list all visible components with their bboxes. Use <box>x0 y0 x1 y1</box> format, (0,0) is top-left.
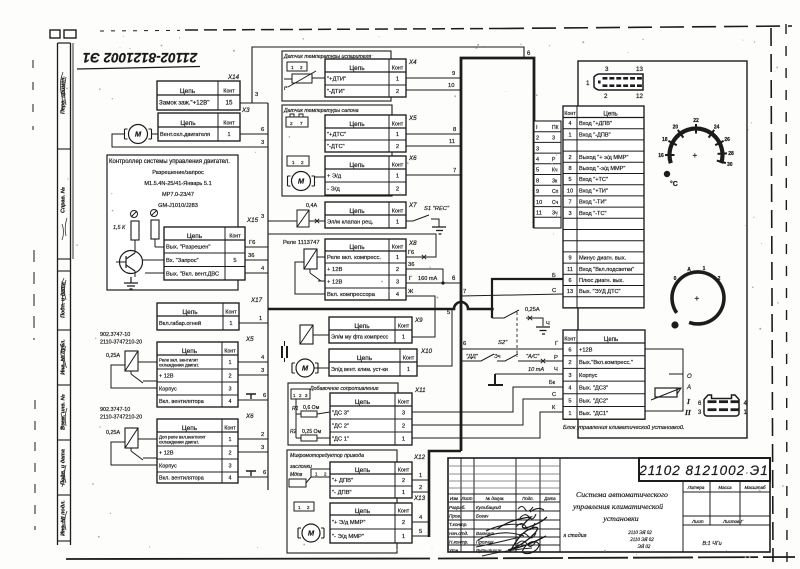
svg-text:Г: Г <box>555 341 559 347</box>
thermistor ДТИ <box>284 71 316 92</box>
svg-text:2: 2 <box>396 144 399 150</box>
svg-text:Вых. "ЭУД ДТС": Вых. "ЭУД ДТС" <box>579 289 621 295</box>
svg-text:2: 2 <box>402 424 405 430</box>
svg-text:Зк: Зк <box>552 178 558 184</box>
svg-text:2110 ЭЯ 02: 2110 ЭЯ 02 <box>628 531 652 536</box>
wire X14 pin15 <box>240 102 268 104</box>
svg-text:8: 8 <box>453 127 456 133</box>
svg-text:6: 6 <box>452 276 456 282</box>
svg-text:2: 2 <box>290 121 293 126</box>
svg-text:X5: X5 <box>408 115 417 122</box>
svg-text:GM-J1010/J283: GM-J1010/J283 <box>158 203 198 209</box>
svg-text:2: 2 <box>396 267 399 273</box>
svg-text:22: 22 <box>693 118 699 124</box>
svg-text:Система автоматического: Система автоматического <box>576 490 668 499</box>
svg-text:0,25 Ом: 0,25 Ом <box>302 429 322 435</box>
connector icon 1 2 c <box>294 502 314 511</box>
svg-text:13: 13 <box>567 289 573 295</box>
svg-text:4: 4 <box>568 386 571 392</box>
output stage extension <box>645 349 683 411</box>
svg-text:2: 2 <box>419 485 422 491</box>
svg-text:0: 0 <box>674 276 677 282</box>
svg-text:охлаждения двигат.: охлаждения двигат. <box>159 362 199 367</box>
svg-text:Цепь: Цепь <box>355 399 371 406</box>
svg-text:Г6: Г6 <box>249 240 255 246</box>
svg-text:1: 1 <box>291 65 294 70</box>
rotated document number stamp <box>77 50 200 69</box>
svg-text:1: 1 <box>396 174 399 180</box>
svg-text:Вых. "Вкл. вент.ДВС: Вых. "Вкл. вент.ДВС <box>166 271 219 277</box>
sheet bottom border <box>66 557 795 559</box>
wire 8 <box>406 127 461 134</box>
svg-text:902.3747-10: 902.3747-10 <box>100 407 130 413</box>
svg-text:36: 36 <box>408 262 414 268</box>
svg-text:2: 2 <box>402 520 405 526</box>
svg-text:II: II <box>684 408 692 417</box>
relay K compressor coil <box>304 249 317 269</box>
wire coil to X8 row1 <box>317 256 325 258</box>
svg-text:Вкл. компрессора: Вкл. компрессора <box>327 292 376 298</box>
svg-text:1: 1 <box>298 505 301 510</box>
connector table X14 <box>157 81 240 110</box>
svg-text:М: М <box>308 529 315 538</box>
sheet top border <box>100 26 792 31</box>
svg-text:+ 12В: + 12В <box>159 451 174 457</box>
svg-text:3: 3 <box>228 464 231 470</box>
svg-text:МР7.0-23/47: МР7.0-23/47 <box>162 192 194 198</box>
svg-text:Сп: Сп <box>552 189 559 195</box>
ground of transistor <box>124 277 138 289</box>
svg-text:С: С <box>552 288 556 294</box>
svg-text:2: 2 <box>396 187 399 193</box>
svg-text:Минус диагн. вых.: Минус диагн. вых. <box>579 256 626 262</box>
svg-text:"ДС 1": "ДС 1" <box>332 437 349 443</box>
temperature dial <box>658 118 734 177</box>
heavy wire left loop <box>429 451 461 537</box>
svg-text:3: 3 <box>396 280 399 286</box>
svg-text:Цепь: Цепь <box>180 88 196 95</box>
svg-text:S2": S2" <box>498 340 508 346</box>
relay winding clutch <box>300 325 313 344</box>
svg-text:Цепь: Цепь <box>355 508 371 515</box>
wire coil2 to row1 <box>138 438 157 440</box>
chassis symbol 2 <box>246 471 256 476</box>
resistor R variable 1 <box>113 211 139 241</box>
svg-text:Конт: Конт <box>398 467 410 473</box>
svg-text:1,5 К: 1,5 К <box>113 225 126 231</box>
svg-text:Дата: Дата <box>543 496 556 501</box>
svg-text:+ Э/д: + Э/д <box>327 174 342 180</box>
svg-text:Т.контр.: Т.контр. <box>449 522 468 527</box>
svg-text:"+ДТС": "+ДТС" <box>327 132 346 138</box>
svg-text:4: 4 <box>228 476 231 482</box>
connector table X6L <box>157 419 238 483</box>
svg-text:I: I <box>686 397 691 406</box>
svg-text:2: 2 <box>568 360 571 366</box>
wire 4 <box>245 266 268 273</box>
svg-text:Нач.отд.: Нач.отд. <box>449 531 468 536</box>
svg-text:30: 30 <box>727 162 733 168</box>
svg-text:X6: X6 <box>245 413 254 420</box>
svg-text:Микромоторедуктор привода: Микромоторедуктор привода <box>290 453 364 459</box>
svg-text:5: 5 <box>447 310 450 316</box>
svg-text:Кульбацкий: Кульбацкий <box>476 504 501 510</box>
svg-text:Конт: Конт <box>392 121 404 127</box>
svg-text:+: + <box>693 151 698 160</box>
svg-text:Вход "Вкл.подсветки": Вход "Вкл.подсветки" <box>579 267 634 273</box>
svg-text:6: 6 <box>527 51 531 57</box>
switch S1 REC <box>406 206 450 227</box>
svg-text:"ДД": "ДД" <box>466 354 479 360</box>
svg-text:X13: X13 <box>413 495 426 502</box>
svg-text:2: 2 <box>568 155 571 161</box>
svg-text:11: 11 <box>536 211 542 217</box>
svg-text:2: 2 <box>536 136 539 142</box>
relay contact compressor <box>310 269 325 281</box>
switch S2 with fuse <box>492 307 550 346</box>
wire 6 <box>238 393 268 400</box>
wire 3 <box>261 214 297 221</box>
svg-text:3: 3 <box>698 410 702 416</box>
svg-text:С: С <box>552 392 556 398</box>
label 6 at harness box top <box>527 51 531 57</box>
svg-text:Конт: Конт <box>392 162 404 168</box>
relay K fan 2 coil <box>125 428 138 448</box>
svg-text:"-ДТС": "-ДТС" <box>327 144 345 150</box>
relay part numbers <box>100 332 142 346</box>
connector table XP1 <box>563 106 644 308</box>
relay part numbers 2 <box>100 407 142 421</box>
svg-text:2: 2 <box>300 65 303 70</box>
svg-text:4: 4 <box>419 515 423 521</box>
svg-text:2: 2 <box>396 89 399 95</box>
svg-text:1: 1 <box>293 393 296 398</box>
title block document number <box>638 458 770 481</box>
svg-text:Конт: Конт <box>398 323 410 329</box>
svg-text:Вх. "Запрос": Вх. "Запрос" <box>166 258 199 264</box>
svg-text:"ДС 3": "ДС 3" <box>332 411 349 417</box>
svg-text:Выход "-э/д ММР": Выход "-э/д ММР" <box>579 166 625 172</box>
svg-text:Добавочное сопротивление: Добавочное сопротивление <box>309 386 379 392</box>
wire coil to row4 <box>295 262 325 294</box>
svg-text:1: 1 <box>419 473 422 479</box>
svg-text:X9: X9 <box>414 317 423 324</box>
svg-text:2110-3747210-20: 2110-3747210-20 <box>100 415 142 421</box>
svg-text:Реле вкл. компресс.: Реле вкл. компресс. <box>327 255 381 261</box>
svg-text:16: 16 <box>658 153 664 159</box>
bus junction <box>490 307 494 311</box>
svg-text:R1: R1 <box>292 406 299 412</box>
svg-text:Эл/д вент. клим. уст-ки: Эл/д вент. клим. уст-ки <box>331 367 388 373</box>
svg-text:1: 1 <box>407 367 410 373</box>
terminal letters <box>684 374 692 417</box>
svg-text:1: 1 <box>228 437 231 443</box>
wire to X15 row2 <box>143 259 164 261</box>
svg-text:4: 4 <box>228 399 231 405</box>
wire ДС1 staircase <box>412 405 563 438</box>
resistor R1 <box>292 399 330 417</box>
svg-text:Разраб.: Разраб. <box>449 505 466 510</box>
svg-text:Б: Б <box>552 273 556 279</box>
svg-text:Эч: Эч <box>494 354 501 360</box>
fuse 0,25A label 2 <box>106 430 120 436</box>
svg-text:3: 3 <box>261 214 264 220</box>
svg-text:Литера: Литера <box>687 485 705 490</box>
wire 2 <box>238 432 268 439</box>
connector icon 1 2 b <box>287 156 309 166</box>
svg-text:1: 1 <box>402 534 405 540</box>
svg-text:3: 3 <box>261 368 264 374</box>
connector table X4 <box>325 59 406 97</box>
svg-text:6: 6 <box>263 470 266 476</box>
svg-text:9: 9 <box>568 256 571 262</box>
svg-text:24: 24 <box>714 125 720 131</box>
svg-text:я стадия: я стадия <box>562 532 586 539</box>
wire 11 <box>406 139 461 146</box>
wire motor to X6m <box>315 176 325 178</box>
wire 10 mA to Корпус <box>495 367 563 374</box>
svg-text:160 mA: 160 mA <box>418 276 438 282</box>
svg-text:36: 36 <box>248 253 254 259</box>
climate control unit box <box>578 61 747 438</box>
svg-text:"ДС 2": "ДС 2" <box>332 424 349 430</box>
label Мдпв + connector icon <box>290 469 331 478</box>
svg-text:Вых."Вкл.компресс.": Вых."Вкл.компресс." <box>579 360 633 366</box>
svg-text:Вых. "ДС3": Вых. "ДС3" <box>579 386 608 392</box>
caption climate control unit <box>563 424 685 431</box>
svg-text:10: 10 <box>536 200 542 206</box>
svg-text:Конт: Конт <box>224 425 236 431</box>
title block <box>448 458 770 556</box>
svg-text:8: 8 <box>536 178 539 184</box>
svg-text:"-ДТИ": "-ДТИ" <box>327 89 345 95</box>
svg-text:3: 3 <box>568 373 571 379</box>
svg-text:1: 1 <box>568 132 571 138</box>
cabin temperature sensor box <box>282 105 392 196</box>
resistor R2 <box>290 414 330 441</box>
svg-text:2: 2 <box>301 160 304 165</box>
relay contact 2 <box>131 448 157 460</box>
wire Г6 <box>245 240 268 247</box>
relay contact 1 <box>131 371 157 383</box>
svg-text:2: 2 <box>307 505 310 510</box>
svg-text:X5: X5 <box>245 336 254 343</box>
svg-text:Датчик температуры салона: Датчик температуры салона <box>283 108 359 114</box>
svg-text:0,4А: 0,4А <box>306 203 317 209</box>
svg-text:ЭЯ 02: ЭЯ 02 <box>638 545 651 550</box>
wire 2 <box>412 485 429 492</box>
svg-text:1: 1 <box>586 80 590 87</box>
svg-text:2: 2 <box>228 451 231 457</box>
svg-text:5: 5 <box>568 177 571 183</box>
chassis symbol <box>246 394 256 399</box>
svg-text:X17: X17 <box>250 297 263 304</box>
svg-text:1: 1 <box>703 266 706 272</box>
thermal relay element <box>651 388 681 400</box>
connector table X13 <box>330 503 412 543</box>
D-sub diagnostic connector <box>586 66 643 100</box>
svg-text:1: 1 <box>229 321 232 327</box>
title block name <box>562 490 668 550</box>
label °C <box>670 180 678 188</box>
wire fuse to X7 with splice <box>309 219 325 223</box>
resistor R variable 2 <box>151 210 160 240</box>
svg-text:3: 3 <box>305 393 308 398</box>
connector table X7 <box>325 202 406 228</box>
svg-text:4: 4 <box>536 157 539 163</box>
wire coil to Корпус <box>111 365 157 388</box>
motor M engine cooling fan <box>125 125 152 144</box>
svg-text:+ 12В: + 12В <box>327 280 342 286</box>
svg-text:10: 10 <box>567 188 573 194</box>
connector table X17 <box>157 303 239 330</box>
svg-text:X7: X7 <box>408 202 417 209</box>
svg-text:"+ДТИ": "+ДТИ" <box>327 77 346 83</box>
svg-text:Изм: Изм <box>450 496 458 501</box>
svg-text:Богач: Богач <box>476 514 489 519</box>
svg-text:"А/С": "А/С" <box>526 354 540 360</box>
svg-text:№ докум.: № докум. <box>486 496 505 501</box>
svg-text:2110-3747210-20: 2110-3747210-20 <box>100 340 142 346</box>
svg-text:Эл/м клапан рец.: Эл/м клапан рец. <box>327 220 374 226</box>
svg-text:А: А <box>686 385 691 391</box>
svg-text:26: 26 <box>724 137 730 143</box>
svg-text:Вход "-ДПВ": Вход "-ДПВ" <box>579 132 611 138</box>
connector table XP2 <box>563 330 645 419</box>
wire 4 <box>238 355 268 362</box>
svg-text:Конт: Конт <box>229 233 241 239</box>
svg-text:6: 6 <box>568 278 571 284</box>
svg-text:"+ Э/д ММР": "+ Э/д ММР" <box>332 520 365 526</box>
svg-text:В:1 ЧГи: В:1 ЧГи <box>702 541 721 547</box>
svg-text:28: 28 <box>728 151 734 157</box>
svg-text:2: 2 <box>299 393 302 398</box>
svg-text:Масса: Масса <box>718 485 732 490</box>
svg-text:Листов Г: Листов Г <box>722 519 744 524</box>
svg-text:S1 "REC": S1 "REC" <box>424 206 450 212</box>
svg-text:2110 ЭЯ 02: 2110 ЭЯ 02 <box>630 538 654 543</box>
ground of S1 <box>432 227 446 234</box>
wire 4 <box>412 515 429 522</box>
connector table X6m <box>325 156 406 195</box>
connector table X5m <box>325 115 406 152</box>
svg-text:+: + <box>695 294 700 303</box>
svg-text:Сч: Сч <box>552 200 559 206</box>
svg-text:902.3747-10: 902.3747-10 <box>100 332 130 338</box>
node: left collector bus <box>267 103 269 490</box>
ground of S2 <box>536 327 550 334</box>
svg-text:X11: X11 <box>414 387 426 394</box>
ground of Корпус wire <box>488 374 503 385</box>
heavy bus wire <box>268 302 492 309</box>
svg-text:15: 15 <box>226 100 233 107</box>
svg-text:X8: X8 <box>408 240 417 247</box>
svg-text:1: 1 <box>259 316 262 322</box>
svg-text:Г: Г <box>409 276 412 282</box>
evaporator temperature sensor box <box>282 51 391 101</box>
svg-text:0,25А: 0,25А <box>525 307 540 313</box>
svg-text:1: 1 <box>396 132 399 138</box>
harness pin column <box>534 121 561 228</box>
svg-text:Бк: Бк <box>549 380 556 386</box>
svg-text:7: 7 <box>300 121 303 126</box>
svg-text:Корпус: Корпус <box>159 387 177 393</box>
transistor Q1 <box>116 247 143 277</box>
svg-text:4: 4 <box>261 266 265 272</box>
svg-text:З: З <box>552 136 555 142</box>
svg-text:4: 4 <box>261 355 265 361</box>
svg-text:1: 1 <box>228 360 231 366</box>
svg-text:Пров.: Пров. <box>449 514 461 519</box>
svg-text:1: 1 <box>402 437 405 443</box>
svg-text:2: 2 <box>324 472 327 477</box>
svg-text:Утв.: Утв. <box>449 548 459 553</box>
svg-text:21102-8121002 Э1: 21102-8121002 Э1 <box>83 50 199 65</box>
svg-text:8: 8 <box>568 166 571 172</box>
svg-text:3: 3 <box>261 445 264 451</box>
svg-text:Цепь: Цепь <box>180 120 196 127</box>
wire Г6 loop <box>268 234 436 259</box>
sheet right border <box>771 24 787 566</box>
svg-text:X12: X12 <box>413 454 426 461</box>
wire resistor nets <box>135 239 164 247</box>
svg-text:Блок управления климатической: Блок управления климатической установкой… <box>563 424 685 431</box>
svg-text:X15: X15 <box>246 217 259 224</box>
svg-text:М: М <box>302 364 309 373</box>
motor M climate fan <box>292 359 318 377</box>
svg-text:12: 12 <box>636 93 643 100</box>
title block litera row <box>683 481 770 552</box>
svg-text:Вых. "ДС2": Вых. "ДС2" <box>579 398 608 404</box>
svg-text:Конт: Конт <box>225 309 237 315</box>
svg-text:"+ ДПВ": "+ ДПВ" <box>332 478 353 484</box>
svg-text:Конт: Конт <box>564 111 576 117</box>
wire 7 <box>406 168 461 175</box>
wire 6 <box>240 127 268 134</box>
svg-text:М1.5.4N-25/41-Январь 5.1: М1.5.4N-25/41-Январь 5.1 <box>144 181 211 187</box>
wire 1 <box>239 316 268 323</box>
svg-text:Цепь: Цепь <box>349 162 365 169</box>
frame corner mark <box>50 30 76 38</box>
svg-text:Конт: Конт <box>223 88 235 94</box>
connector icon 1 2 3 <box>291 389 310 399</box>
position sensor block <box>289 477 311 487</box>
svg-text:X14: X14 <box>227 74 240 81</box>
svg-text:6: 6 <box>263 393 266 399</box>
svg-text:3: 3 <box>605 66 609 73</box>
relay label 1113747 <box>283 240 320 246</box>
micro gear motor box <box>287 450 397 553</box>
wire 5 <box>412 529 429 536</box>
svg-text:1: 1 <box>227 132 230 138</box>
svg-text:Конт: Конт <box>564 336 576 342</box>
connector table X5L <box>157 342 238 407</box>
pressure switch ДД and A/C switch <box>461 354 563 363</box>
svg-text:Лист: Лист <box>460 496 472 501</box>
svg-text:1: 1 <box>402 335 405 341</box>
svg-text:3: 3 <box>261 140 264 146</box>
svg-text:Разрешение/запрос: Разрешение/запрос <box>152 170 204 176</box>
svg-text:управления климатической: управления климатической <box>572 502 663 511</box>
svg-text:3: 3 <box>402 411 405 417</box>
wire 6 <box>238 470 268 477</box>
svg-text:7: 7 <box>463 289 466 295</box>
svg-text:Конт: Конт <box>398 399 410 405</box>
svg-text:3: 3 <box>568 211 571 217</box>
svg-text:3: 3 <box>255 92 258 98</box>
svg-text:18: 18 <box>662 137 668 143</box>
svg-text:Цепь: Цепь <box>182 309 198 316</box>
